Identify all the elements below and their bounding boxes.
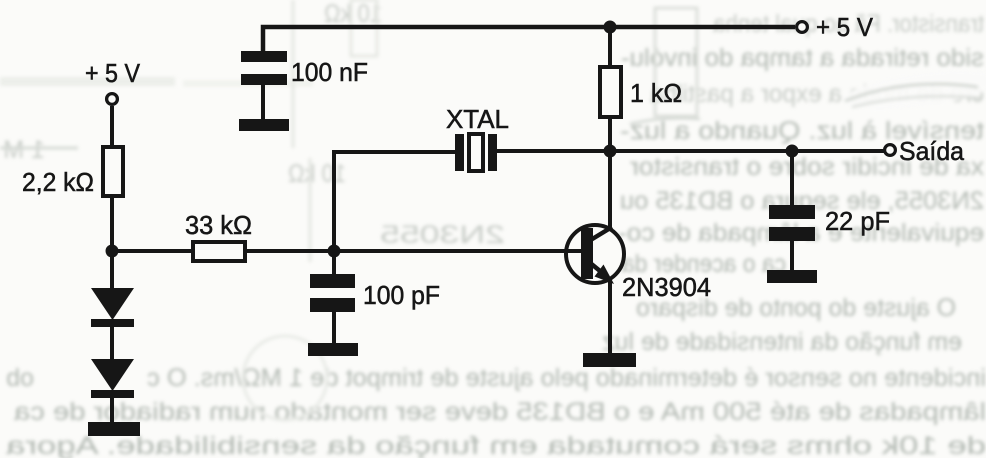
wire D2 to ground	[110, 398, 114, 424]
faint bleed schematic shapes	[655, 8, 697, 116]
svg-text:100 nF: 100 nF	[291, 57, 368, 87]
resistor 2,2 kΩ	[22, 147, 123, 197]
crystal XTAL	[446, 104, 509, 171]
svg-text:10 kΩ: 10 kΩ	[324, 0, 382, 28]
power terminal +5V right	[797, 12, 874, 42]
capacitor 100 pF	[310, 251, 440, 345]
resistor 33 kΩ	[185, 210, 252, 261]
svg-text:XTAL: XTAL	[446, 104, 509, 134]
svg-text:1 kΩ: 1 kΩ	[630, 78, 682, 108]
svg-text:incidente no sensor é determin: incidente no sensor é determinado pelo a…	[147, 364, 986, 392]
capacitor 100 nF	[241, 51, 368, 121]
node E (rail / 22pF)	[786, 145, 799, 158]
svg-text:2N3055: 2N3055	[380, 221, 505, 249]
wire D1 to D2	[110, 327, 114, 360]
top supply rail	[263, 27, 795, 53]
capacitor 22 pF	[769, 151, 890, 272]
svg-text:em função da intensidade de lu: em função da intensidade de luz	[602, 328, 962, 356]
svg-text:de 10k ohms será comutada em f: de 10k ohms será comutada em função da s…	[6, 432, 986, 458]
svg-text:+ 5 V: + 5 V	[816, 12, 874, 42]
wire resistor 1k to collector rail	[608, 117, 612, 152]
wire node B to transistor base	[334, 249, 583, 253]
svg-text:+ 5 V: + 5 V	[85, 58, 141, 88]
node A (junction 2.2k / 33k / diodes)	[106, 245, 119, 258]
svg-text:1 M: 1 M	[3, 136, 45, 164]
wire collector down to transistor	[608, 151, 612, 230]
svg-text:sido retirada a tampa do invól: sido retirada a tampa do invólu-	[621, 44, 984, 72]
svg-text:lâmpadas de até 500 mA e o BD1: lâmpadas de até 500 mA e o BD135 deve se…	[14, 398, 986, 426]
ground (emitter)	[583, 353, 636, 367]
resistor 1 kΩ	[600, 67, 682, 117]
diode D1	[91, 288, 134, 327]
wire node A to resistor 33k	[112, 249, 193, 253]
node C (top rail / 1k)	[604, 21, 617, 34]
diode D2	[91, 359, 134, 398]
wire node B up to crystal	[334, 152, 456, 251]
power terminal +5V left	[85, 58, 141, 104]
wire resistor 33k to node B	[247, 249, 334, 253]
svg-text:100 pF: 100 pF	[363, 280, 440, 310]
svg-text:2,2 kΩ: 2,2 kΩ	[22, 167, 94, 197]
transistor Q1 2N3904	[566, 225, 711, 302]
svg-text:33 kΩ: 33 kΩ	[185, 210, 252, 240]
wire emitter to ground	[608, 280, 612, 354]
svg-text:22 pF: 22 pF	[825, 206, 890, 236]
ground (22 pF)	[767, 270, 817, 283]
svg-text:Saída: Saída	[899, 136, 965, 166]
ground (diode chain)	[88, 422, 140, 436]
ground (100 nF)	[239, 119, 289, 131]
node B (junction 33k / 100pF / XTAL riser / base)	[328, 245, 341, 258]
wire crystal to collector rail	[497, 149, 610, 153]
svg-text:2N3904: 2N3904	[622, 272, 711, 302]
wire +5V left to resistor 2.2k	[110, 106, 114, 147]
collector rail to output	[610, 149, 884, 153]
svg-text:10 kΩ: 10 kΩ	[288, 160, 346, 188]
node D (collector / 1k / XTAL)	[604, 145, 617, 158]
svg-text:ob: ob	[6, 364, 34, 392]
output terminal Saída	[885, 136, 965, 166]
wire resistor 2.2k to diode D1	[110, 198, 114, 290]
wire node C to resistor 1k	[608, 27, 612, 67]
ground (100 pF)	[308, 343, 358, 356]
